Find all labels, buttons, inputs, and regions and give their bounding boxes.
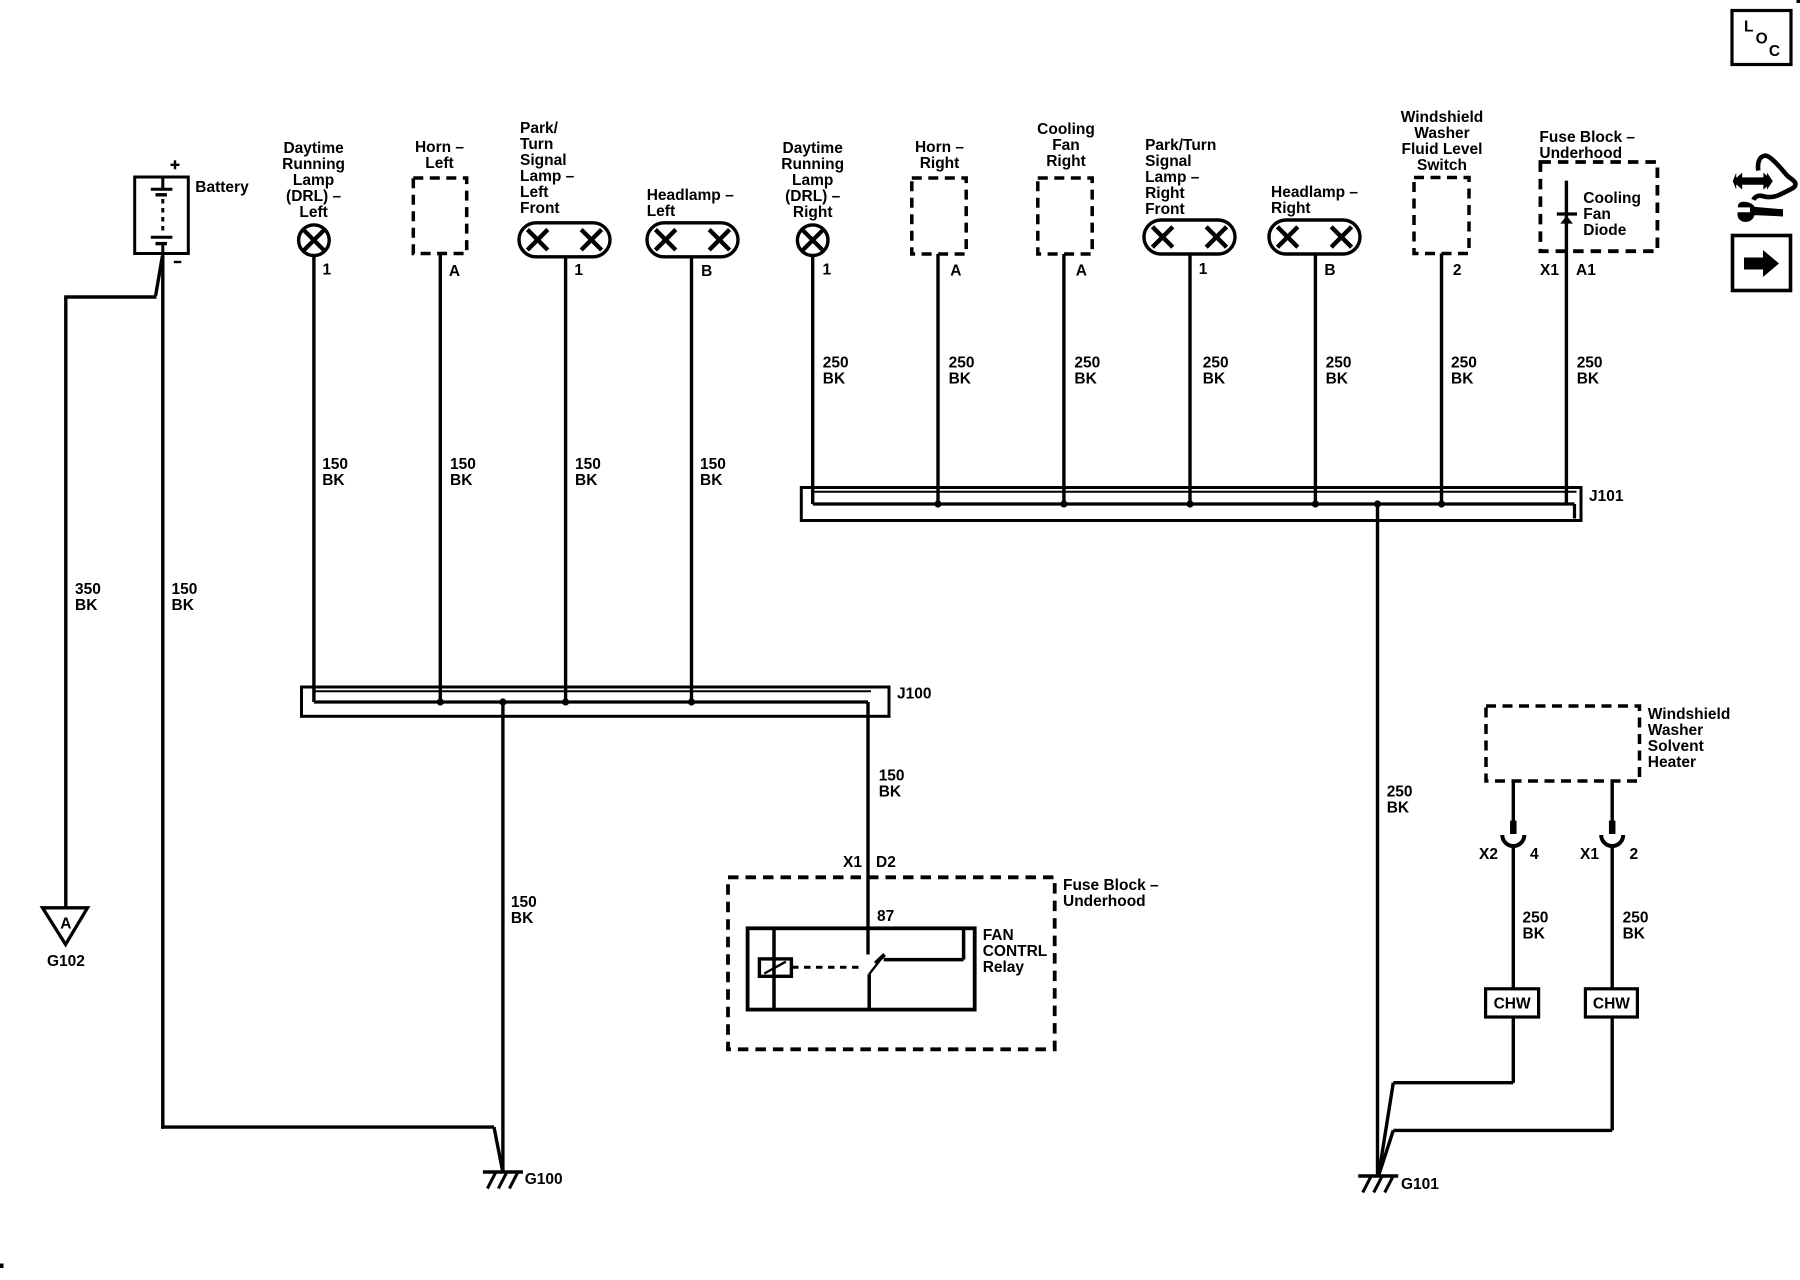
wire heater right pin X1-2 [1610, 781, 1613, 821]
wire park/turn right 250 BK [1188, 254, 1191, 504]
svg-text:350: 350 [75, 581, 101, 598]
svg-text:Right: Right [1271, 200, 1311, 217]
svg-text:Turn: Turn [520, 136, 553, 153]
svg-text:(DRL) –: (DRL) – [785, 188, 840, 205]
svg-text:Left: Left [425, 155, 453, 172]
svg-text:Fan: Fan [1583, 206, 1611, 223]
svg-text:X2: X2 [1479, 846, 1498, 863]
svg-text:D2: D2 [876, 854, 896, 871]
scan artifact bottom-left [0, 1264, 4, 1269]
svg-text:Cooling: Cooling [1583, 190, 1641, 207]
svg-text:Windshield: Windshield [1401, 109, 1484, 126]
wire heater left pin X2-4 [1512, 781, 1515, 821]
svg-text:BK: BK [700, 472, 723, 489]
svg-text:Horn –: Horn – [415, 139, 464, 156]
svg-text:1: 1 [574, 262, 583, 279]
svg-text:Switch: Switch [1417, 157, 1467, 174]
svg-text:A: A [1076, 263, 1087, 280]
svg-text:A: A [60, 916, 71, 933]
svg-text:A: A [449, 263, 460, 280]
splice CHW left [1486, 989, 1539, 1017]
svg-text:J101: J101 [1589, 488, 1624, 505]
svg-text:Horn –: Horn – [915, 139, 964, 156]
connector X1 pin 2 [1609, 821, 1616, 834]
relay coil [759, 959, 791, 976]
svg-text:CHW: CHW [1593, 996, 1630, 1013]
svg-text:BK: BK [823, 371, 846, 388]
svg-text:Fan: Fan [1052, 137, 1080, 154]
wire park/turn left 150 BK [564, 257, 567, 702]
svg-text:G100: G100 [525, 1171, 563, 1188]
svg-text:Lamp –: Lamp – [1145, 169, 1200, 186]
wire J100 to G100 150 BK [501, 702, 504, 1171]
svg-text:150: 150 [700, 456, 726, 473]
svg-text:Solvent: Solvent [1648, 738, 1704, 755]
svg-text:X1: X1 [1580, 846, 1599, 863]
svg-text:BK: BK [1387, 799, 1410, 816]
svg-text:Running: Running [781, 156, 844, 173]
svg-text:J100: J100 [897, 686, 931, 703]
svg-text:Signal: Signal [1145, 153, 1192, 170]
wire headlamp left 150 BK [690, 257, 693, 702]
icon LOC box [1732, 11, 1791, 65]
svg-text:BK: BK [949, 371, 972, 388]
svg-text:4: 4 [1530, 846, 1539, 863]
svg-text:250: 250 [1623, 910, 1649, 927]
svg-text:Left: Left [520, 184, 548, 201]
icon double arrow with outline (navigation) [1733, 173, 1773, 190]
svg-text:Front: Front [1145, 201, 1185, 218]
svg-text:O: O [1756, 31, 1768, 48]
icon wrench [1737, 202, 1783, 222]
svg-text:X1: X1 [1540, 262, 1559, 279]
svg-text:150: 150 [322, 456, 348, 473]
svg-text:BK: BK [575, 472, 598, 489]
svg-text:2: 2 [1453, 262, 1462, 279]
svg-text:L: L [1744, 19, 1753, 36]
wire DRL left 150 BK [312, 256, 315, 703]
svg-text:Right: Right [793, 204, 833, 221]
ground G102 [43, 908, 88, 945]
svg-text:Washer: Washer [1648, 722, 1703, 739]
svg-text:Right: Right [1145, 185, 1185, 202]
svg-text:BK: BK [322, 472, 345, 489]
svg-text:Battery: Battery [195, 179, 249, 196]
svg-text:C: C [1769, 43, 1780, 60]
connector X2 pin 4 [1510, 821, 1517, 834]
svg-text:Fuse Block –: Fuse Block – [1539, 129, 1635, 146]
junction block J101 [801, 488, 1581, 521]
scan artifact top-right [1797, 0, 1800, 3]
svg-text:Daytime: Daytime [283, 140, 344, 157]
svg-text:CHW: CHW [1494, 996, 1531, 1013]
node J100 joints [437, 698, 444, 705]
wire battery negative to G100 [161, 254, 164, 1129]
svg-text:250: 250 [1203, 355, 1229, 372]
svg-text:A: A [950, 263, 961, 280]
svg-text:2: 2 [1630, 846, 1639, 863]
svg-text:150: 150 [575, 456, 601, 473]
svg-text:Daytime: Daytime [783, 140, 844, 157]
svg-text:Park/Turn: Park/Turn [1145, 137, 1216, 154]
junction block J100 [302, 687, 890, 716]
wire J100 to fan control relay 150 BK [866, 702, 869, 955]
node J101 joints [934, 500, 941, 507]
wire horn right 250 BK [936, 254, 939, 504]
relay switch blade [869, 956, 883, 974]
relay K1 FAN CONTRL [748, 928, 975, 1009]
svg-text:X1: X1 [843, 854, 862, 871]
svg-text:Underhood: Underhood [1539, 145, 1622, 162]
svg-text:B: B [701, 263, 712, 280]
svg-text:Left: Left [647, 203, 675, 220]
svg-text:BK: BK [75, 597, 98, 614]
svg-text:Windshield: Windshield [1648, 706, 1731, 723]
svg-text:G101: G101 [1401, 1176, 1439, 1193]
wire CHW left to G101 [1512, 1017, 1515, 1083]
svg-text:G102: G102 [47, 953, 85, 970]
svg-text:Headlamp –: Headlamp – [647, 187, 734, 204]
wire headlamp right 250 BK [1314, 254, 1317, 504]
splice CHW right [1585, 989, 1637, 1017]
svg-text:Lamp: Lamp [792, 172, 833, 189]
windshield washer solvent heater dashed box [1486, 706, 1640, 781]
svg-text:150: 150 [511, 894, 537, 911]
fuse block underhood (relay) dashed box [728, 877, 1055, 1049]
svg-text:Underhood: Underhood [1063, 893, 1146, 910]
svg-text:BK: BK [1451, 371, 1474, 388]
svg-text:250: 250 [1451, 355, 1477, 372]
diode D1 cooling fan [1565, 181, 1568, 504]
svg-text:Lamp: Lamp [293, 172, 334, 189]
svg-text:Diode: Diode [1583, 222, 1626, 239]
svg-text:BK: BK [1577, 371, 1600, 388]
wire cooling fan right 250 BK [1062, 254, 1065, 504]
svg-text:BK: BK [1623, 926, 1646, 943]
svg-text:Fluid Level: Fluid Level [1402, 141, 1483, 158]
ground G100 [483, 1170, 523, 1174]
wire battery branch to G102 [156, 256, 163, 296]
svg-text:Left: Left [299, 204, 327, 221]
battery B1 [135, 177, 189, 254]
svg-text:Signal: Signal [520, 152, 567, 169]
svg-text:BK: BK [1203, 371, 1226, 388]
svg-text:150: 150 [879, 767, 905, 784]
svg-text:250: 250 [823, 355, 849, 372]
wire CHW right to G101 [1610, 1017, 1613, 1130]
svg-text:CONTRL: CONTRL [983, 943, 1048, 960]
svg-text:BK: BK [1326, 371, 1349, 388]
svg-text:BK: BK [511, 910, 534, 927]
svg-text:Lamp –: Lamp – [520, 168, 575, 185]
svg-text:Fuse Block –: Fuse Block – [1063, 877, 1159, 894]
svg-text:Relay: Relay [983, 959, 1025, 976]
svg-text:1: 1 [323, 262, 332, 279]
svg-text:Headlamp –: Headlamp – [1271, 184, 1358, 201]
svg-text:150: 150 [450, 456, 476, 473]
svg-text:(DRL) –: (DRL) – [286, 188, 341, 205]
svg-text:BK: BK [1074, 371, 1097, 388]
wire washer fluid switch 250 BK [1440, 254, 1443, 505]
svg-text:87: 87 [877, 908, 894, 925]
svg-text:Park/: Park/ [520, 120, 559, 137]
wire J101 to G101 250 BK [1376, 504, 1379, 1175]
svg-text:BK: BK [172, 597, 195, 614]
svg-text:Right: Right [920, 155, 960, 172]
svg-text:Right: Right [1046, 153, 1086, 170]
svg-text:250: 250 [1074, 355, 1100, 372]
svg-text:1: 1 [823, 262, 832, 279]
svg-text:250: 250 [1577, 355, 1603, 372]
svg-text:Heater: Heater [1648, 754, 1696, 771]
svg-text:FAN: FAN [983, 927, 1014, 944]
icon forward arrow box [1733, 236, 1791, 291]
svg-text:BK: BK [879, 783, 902, 800]
svg-text:BK: BK [450, 472, 473, 489]
svg-text:Front: Front [520, 200, 560, 217]
svg-text:Running: Running [282, 156, 345, 173]
svg-text:Washer: Washer [1414, 125, 1469, 142]
svg-text:150: 150 [172, 581, 198, 598]
svg-text:Cooling: Cooling [1037, 121, 1095, 138]
svg-text:250: 250 [1326, 355, 1352, 372]
svg-text:BK: BK [1523, 926, 1546, 943]
svg-text:B: B [1324, 262, 1335, 279]
svg-text:250: 250 [1523, 910, 1549, 927]
svg-text:250: 250 [949, 355, 975, 372]
svg-text:1: 1 [1199, 261, 1208, 278]
wire horn left 150 BK [439, 254, 442, 703]
wire DRL right 250 BK [811, 256, 814, 505]
ground G101 [1358, 1174, 1398, 1178]
svg-text:A1: A1 [1576, 262, 1596, 279]
svg-text:250: 250 [1387, 783, 1413, 800]
